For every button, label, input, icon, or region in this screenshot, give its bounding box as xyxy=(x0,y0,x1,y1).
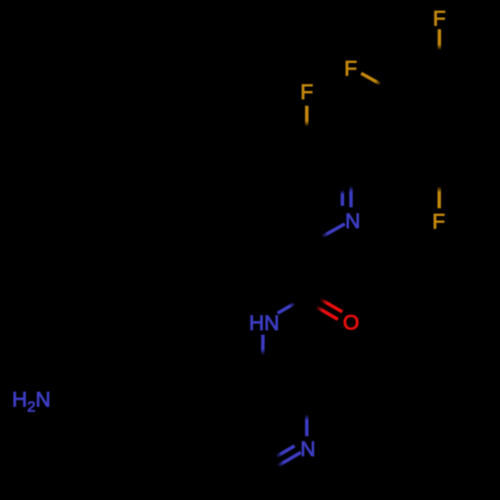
bond N1=C2a inner line xyxy=(341,174,344,206)
svg-text:F: F xyxy=(433,7,446,30)
svg-text:F: F xyxy=(432,211,445,234)
bond F2-C2' xyxy=(361,73,395,92)
bond N2=C4b main line xyxy=(263,452,301,474)
svg-text:HN: HN xyxy=(249,312,279,335)
bond C=O upper line xyxy=(309,293,342,312)
bond N1=C2a main line (pyridine A ring double bond) xyxy=(349,169,352,208)
bond F3-C6' xyxy=(438,169,441,208)
bond F4-C3a xyxy=(305,106,308,144)
svg-text:F: F xyxy=(300,81,313,104)
svg-text:N: N xyxy=(345,210,360,233)
bond N2-C2b xyxy=(305,398,308,436)
svg-text:F: F xyxy=(344,57,357,80)
bond F1-C3' xyxy=(438,29,442,67)
svg-text:N: N xyxy=(300,438,315,461)
bond HN-C3b xyxy=(261,335,265,373)
bond N1-C6a xyxy=(307,224,345,245)
bond C=O lower line xyxy=(305,300,338,319)
bond N2=C4b inner line xyxy=(261,446,295,466)
svg-text:O: O xyxy=(343,312,359,335)
bond HN-Cco xyxy=(278,296,307,313)
